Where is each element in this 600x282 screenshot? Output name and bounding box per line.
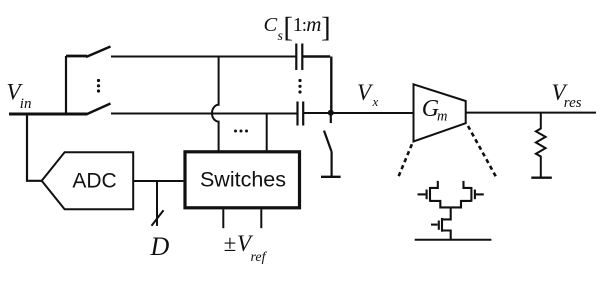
svg-text:ref: ref bbox=[251, 250, 268, 265]
svg-text:m: m bbox=[306, 12, 321, 36]
svg-text:]: ] bbox=[321, 12, 331, 44]
svg-text:±: ± bbox=[224, 231, 237, 256]
svg-text:[: [ bbox=[283, 12, 293, 44]
svg-text:ADC: ADC bbox=[72, 170, 116, 193]
svg-text:res: res bbox=[564, 95, 582, 111]
svg-text:D: D bbox=[150, 232, 170, 261]
svg-text:m: m bbox=[437, 109, 447, 125]
svg-text:Switches: Switches bbox=[200, 168, 286, 192]
svg-text:V: V bbox=[357, 80, 374, 105]
svg-text:C: C bbox=[264, 14, 278, 36]
svg-text:x: x bbox=[372, 94, 379, 109]
svg-text:in: in bbox=[20, 96, 32, 112]
